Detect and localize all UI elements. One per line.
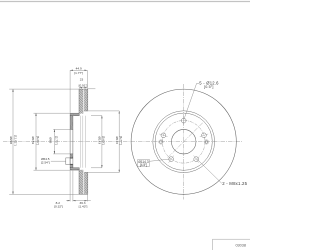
label Ø64.5 with leader bbox=[41, 157, 50, 164]
front view: vertical centerline bbox=[183, 84, 185, 200]
dimension Ø143 hat diameter bbox=[91, 116, 102, 168]
svg-text:Ø298: Ø298 bbox=[9, 137, 13, 145]
section view: stud hole in flange bbox=[66, 158, 73, 165]
front view: bolt circle PCD 114.3 bbox=[162, 121, 205, 164]
dimension Ø298 overall diameter bbox=[9, 89, 79, 194]
threaded hole M8 left bbox=[159, 140, 163, 144]
bolt hole tick marks bbox=[159, 116, 208, 162]
label 5-Ø12.6 bolt holes with leader bbox=[184, 83, 199, 119]
section view: hat bottom wall bbox=[70, 168, 79, 170]
front view: circle Ø159 bbox=[155, 113, 212, 170]
dimension Ø172 bbox=[88, 89, 120, 173]
svg-text:Ø172: Ø172 bbox=[115, 137, 119, 145]
dimension 44.9 overall height bbox=[70, 70, 87, 113]
label 2-M8x1.25 with leader bbox=[197, 159, 222, 183]
svg-text:[11.81″]: [11.81″] bbox=[13, 135, 17, 145]
dimension Ø159 inner braking diameter bbox=[34, 113, 80, 170]
svg-text:Ø69: Ø69 bbox=[49, 137, 53, 143]
dimension 8.2 flange thickness bbox=[66, 171, 91, 202]
svg-text:[2.72″]: [2.72″] bbox=[55, 136, 59, 145]
svg-text:[0.91″]: [0.91″] bbox=[79, 84, 88, 88]
dimension 23 disc thickness bbox=[79, 88, 87, 89]
svg-text:[6.77″]: [6.77″] bbox=[119, 136, 123, 145]
svg-text:[1.77″]: [1.77″] bbox=[74, 71, 83, 75]
svg-text:Ø159: Ø159 bbox=[31, 137, 35, 145]
section view: mounting flange bbox=[70, 116, 73, 168]
front view: outer circle Ø298 bbox=[131, 89, 236, 194]
section view: disc upper plates bbox=[79, 89, 88, 114]
svg-text:[1.43″]: [1.43″] bbox=[79, 205, 88, 209]
svg-text:[2.54″]: [2.54″] bbox=[41, 161, 50, 165]
svg-text:23: 23 bbox=[80, 78, 84, 82]
horizontal centerline bbox=[3, 141, 243, 143]
svg-text:2 - M8x1.25: 2 - M8x1.25 bbox=[222, 181, 247, 186]
section view: disc lower plates bbox=[79, 170, 88, 195]
top border rule bbox=[0, 1, 250, 3]
front view: 45 degree centerline bbox=[168, 122, 204, 158]
svg-text:Ø143: Ø143 bbox=[98, 137, 102, 145]
part number box bbox=[213, 239, 251, 250]
svg-text:03038: 03038 bbox=[235, 244, 246, 248]
dimension Ø69 center bore bbox=[53, 129, 70, 154]
svg-text:[4.5″]: [4.5″] bbox=[140, 163, 147, 167]
svg-text:[5.63″]: [5.63″] bbox=[102, 136, 106, 145]
svg-text:[0.5″]: [0.5″] bbox=[204, 85, 214, 89]
section view: hat top wall bbox=[70, 114, 79, 116]
svg-text:[6.26″]: [6.26″] bbox=[36, 136, 40, 145]
bolt hole top bbox=[161, 118, 206, 161]
label PCD 114.3 boxed with leader bbox=[138, 159, 171, 166]
threaded hole M8 right bbox=[204, 140, 208, 144]
section view: hat interior background edges bbox=[80, 116, 85, 168]
svg-text:[0.32″]: [0.32″] bbox=[54, 205, 63, 209]
front view: circle Ø172 bbox=[153, 111, 215, 173]
front view: center bore Ø69 bbox=[171, 129, 196, 154]
